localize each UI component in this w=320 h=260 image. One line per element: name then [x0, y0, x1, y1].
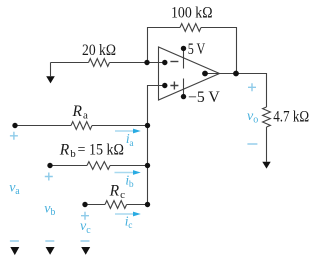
svg-text:= 15 kΩ: = 15 kΩ	[78, 141, 125, 158]
svg-text:R: R	[59, 141, 70, 158]
svg-text:b: b	[50, 207, 55, 218]
svg-text:20 kΩ: 20 kΩ	[82, 42, 116, 59]
svg-text:c: c	[120, 189, 125, 201]
svg-text:b: b	[70, 148, 76, 160]
svg-text:a: a	[15, 186, 20, 197]
svg-text:−5 V: −5 V	[188, 89, 221, 106]
svg-text:100 kΩ: 100 kΩ	[171, 4, 213, 21]
svg-text:o: o	[253, 115, 258, 126]
svg-text:R: R	[109, 182, 120, 199]
svg-text:c: c	[86, 225, 91, 236]
svg-text:c: c	[128, 221, 132, 231]
svg-text:a: a	[83, 110, 88, 122]
svg-text:b: b	[129, 180, 134, 190]
svg-text:5 V: 5 V	[188, 41, 206, 58]
svg-text:R: R	[72, 103, 83, 120]
svg-text:4.7 kΩ: 4.7 kΩ	[273, 109, 309, 126]
